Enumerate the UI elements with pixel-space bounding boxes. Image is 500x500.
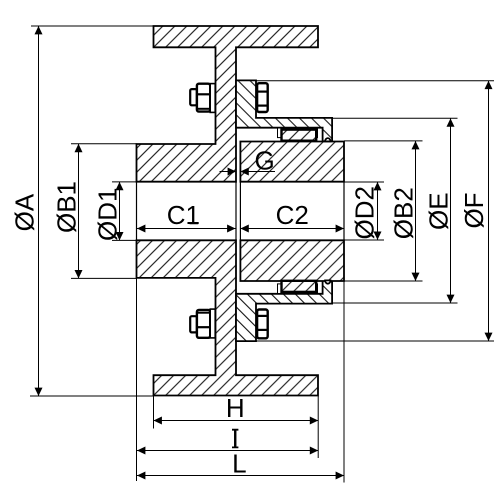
dimension ØE: [332, 118, 458, 303]
elastic element bottom: rubber block: [282, 281, 317, 292]
dimension H: [154, 396, 319, 458]
dimension ØB2: [344, 141, 423, 281]
bolt top: protruding end: [190, 89, 197, 105]
dimension ØD2: [343, 182, 384, 240]
elastic element bottom: outer slot: [278, 284, 318, 294]
bolt bottom: nut: [197, 310, 210, 338]
bolt bottom: protruding end: [190, 316, 197, 332]
dimension ØF: [256, 81, 494, 341]
svg-text:ØD1: ØD1: [93, 188, 123, 241]
seal dome top: [325, 138, 330, 141]
bolt top: washer: [210, 84, 215, 113]
seal dome bottom: [325, 280, 330, 283]
dimension ØD1: [112, 182, 137, 241]
left flange-hub body bottom half: [137, 240, 319, 395]
dimension C1: [137, 228, 236, 230]
right flange ring top half: [236, 80, 332, 141]
svg-text:C2: C2: [276, 200, 309, 230]
bolt bottom: washer: [210, 309, 215, 338]
dimension ØB1: [71, 144, 137, 279]
bore lines seen through hole: [136, 182, 138, 241]
svg-text:ØE: ØE: [423, 192, 453, 230]
right hub top half: [240, 142, 344, 182]
left flange-hub body top half: [137, 26, 319, 182]
dimension I: [137, 278, 319, 481]
right flange ring bottom half: [236, 280, 332, 341]
elastic element top: rubber block: [282, 130, 317, 141]
svg-text:L: L: [232, 449, 246, 479]
bolt bottom: head right side: [257, 310, 268, 339]
svg-text:G: G: [254, 146, 274, 176]
dimension ØA: [30, 26, 154, 396]
dimension L: [137, 281, 344, 483]
right hub bottom half: [240, 240, 344, 281]
svg-text:H: H: [226, 393, 245, 423]
svg-text:ØA: ØA: [10, 193, 40, 231]
svg-text:C1: C1: [167, 200, 200, 230]
svg-text:ØB2: ØB2: [388, 187, 418, 239]
bolt top: head right side: [257, 83, 268, 112]
bolt top: nut: [197, 84, 210, 112]
dimension C2: [240, 228, 344, 230]
elastic element top: outer slot: [278, 128, 318, 138]
svg-text:ØF: ØF: [459, 192, 489, 228]
svg-text:ØB1: ØB1: [51, 181, 81, 233]
svg-text:ØD2: ØD2: [350, 186, 380, 239]
dimension G: [220, 171, 233, 173]
